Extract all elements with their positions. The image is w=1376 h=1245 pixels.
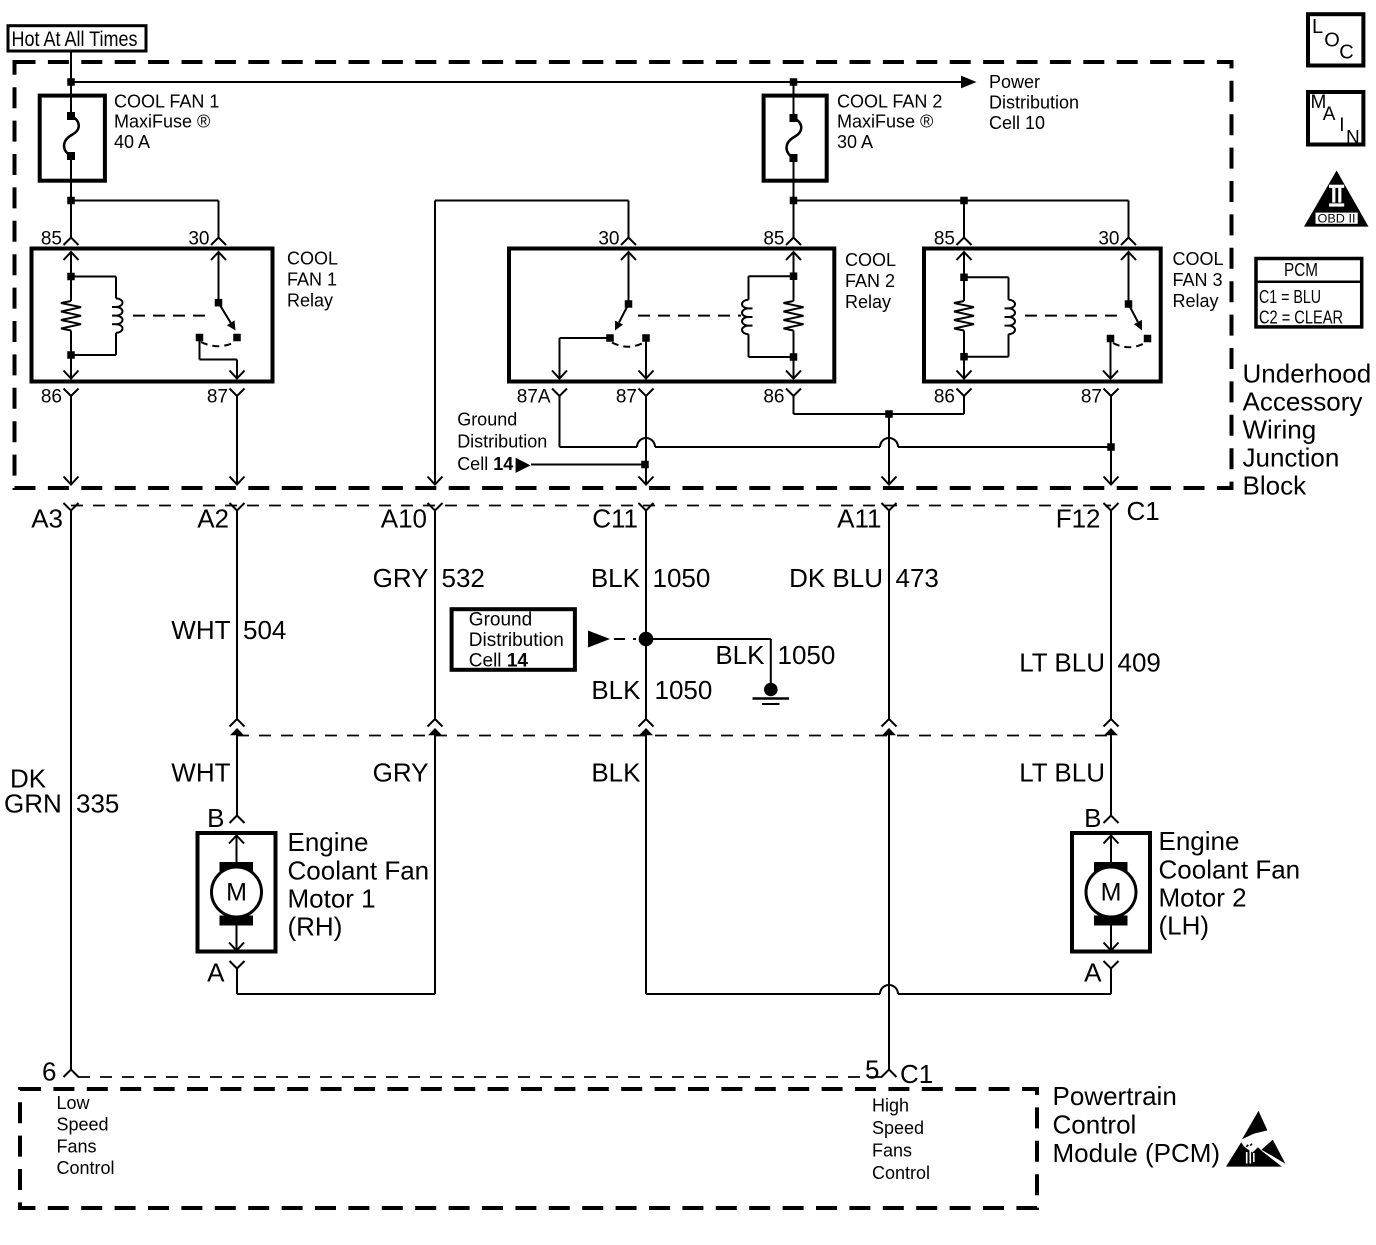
node: coil bottom junction K3 <box>960 353 968 361</box>
wire C11 BLK upper segment <box>645 511 647 720</box>
label Engine Coolant Fan Motor 2 (LH) <box>1159 826 1301 941</box>
wire branch to relay1 pin 30 <box>71 200 219 202</box>
wire top bus down to fuse 2 <box>793 82 795 96</box>
PCM pin 5 connector <box>882 1070 897 1078</box>
motor M1 terminal B connector <box>230 816 245 824</box>
relay K3 pin 85 internal lead <box>963 252 965 277</box>
wire to relay3 pin 85 <box>963 201 965 238</box>
wire motor2 A down to BLK bus <box>1110 969 1112 995</box>
wire A3 DK GRN down to PCM pin 6 <box>70 511 72 1070</box>
wire relay3 pin 87 to F12 exit <box>1110 396 1112 485</box>
svg-text:(LH): (LH) <box>1159 911 1210 941</box>
svg-text:86: 86 <box>41 387 62 408</box>
relay K1 pin 87 connector <box>230 389 245 397</box>
motor M1 Engine Coolant Fan Motor 1 box <box>198 833 276 952</box>
wire BLK down to ground bus <box>645 736 647 995</box>
svg-text:N: N <box>1346 127 1360 148</box>
svg-text:Relay: Relay <box>845 292 891 312</box>
svg-text:I: I <box>1339 115 1344 136</box>
svg-text:DK BLU: DK BLU <box>789 563 883 593</box>
node: switch pivot K3 <box>1125 300 1133 308</box>
label High Speed Fans Control <box>872 1096 930 1183</box>
svg-text:OBD II: OBD II <box>1318 213 1356 225</box>
svg-text:504: 504 <box>243 615 286 645</box>
node: coil top junction K1 <box>67 273 75 281</box>
svg-text:COOL FAN 1: COOL FAN 1 <box>114 91 219 111</box>
svg-text:F12: F12 <box>1056 504 1101 534</box>
relay K2 armature dashed link <box>638 315 741 317</box>
svg-text:COOL: COOL <box>1173 249 1224 269</box>
svg-text:87: 87 <box>1081 387 1102 408</box>
label Underhood Accessory Wiring Junction Block <box>1243 358 1372 500</box>
resistor inside K3 <box>963 277 965 301</box>
wire A10 column inside junction block <box>434 201 436 485</box>
svg-text:Cell 10: Cell 10 <box>989 113 1045 133</box>
svg-text:M: M <box>1101 879 1122 907</box>
node: tap junction for COOL FAN 2 fuse <box>790 78 798 86</box>
svg-text:COOL: COOL <box>845 250 896 270</box>
svg-text:86: 86 <box>763 387 784 408</box>
node: K3 contact 87 <box>1107 335 1115 343</box>
svg-text:Accessory: Accessory <box>1243 386 1363 416</box>
coil inside K1 <box>71 276 116 278</box>
relay K2 pin 85 internal lead <box>793 252 795 276</box>
node: K1 contact 87 <box>233 334 241 342</box>
relay K2 pin 86 connector <box>786 389 801 397</box>
wire bus BLK to motor2 A with hop over DK BLU <box>646 993 880 995</box>
node: coil bottom junction K1 <box>67 351 75 359</box>
arrow from Cell 14 box to BLK wire <box>588 631 610 648</box>
node: K2 contact 87 <box>642 334 650 342</box>
label COOL FAN 2 Relay <box>845 250 896 312</box>
svg-text:Block: Block <box>1243 470 1308 500</box>
motor M1 brush caps <box>220 862 254 872</box>
K1 normally-closed dashed arc <box>201 342 235 346</box>
svg-text:Coolant Fan: Coolant Fan <box>1159 855 1301 885</box>
label COOL FAN 2 MaxiFuse 30 A <box>837 91 942 152</box>
relay K3 pin 30 internal lead <box>1128 252 1130 304</box>
connector A11 <box>882 503 897 511</box>
node: switch pivot K1 <box>215 299 223 307</box>
svg-text:Junction: Junction <box>1243 442 1340 472</box>
Ground Distribution Cell 14 box <box>452 609 575 670</box>
label COOL FAN 1 Relay <box>287 249 338 311</box>
motor M1 bottom lead arrow <box>236 926 238 951</box>
svg-text:Low: Low <box>57 1093 91 1113</box>
wire from Hot At All Times down to fuse 1 <box>70 51 72 96</box>
relay K2 pin 87A internal lead <box>560 337 611 339</box>
svg-text:Cell 14: Cell 14 <box>469 651 529 672</box>
relay K1 pin 85 internal lead <box>70 252 72 277</box>
PCM connector legend box <box>1256 259 1362 328</box>
svg-text:Control: Control <box>872 1163 930 1183</box>
relay K1 pin 87 internal lead <box>199 341 201 360</box>
svg-text:85: 85 <box>41 229 62 250</box>
svg-text:Engine: Engine <box>288 827 369 857</box>
svg-text:C1: C1 <box>1127 496 1160 526</box>
wire A2 WHT upper segment <box>236 511 238 720</box>
relay K2 COOL FAN 2 Relay box <box>509 249 834 382</box>
svg-text:Module (PCM): Module (PCM) <box>1053 1138 1221 1168</box>
svg-text:Control: Control <box>57 1158 115 1178</box>
node: coil top junction K2 <box>790 272 798 280</box>
label Power Distribution Cell 10 <box>989 72 1079 133</box>
svg-text:1050: 1050 <box>653 563 711 593</box>
wire LT BLU to motor2 B <box>1110 736 1112 816</box>
relay K1 pin 85 connector <box>64 238 79 246</box>
svg-text:MaxiFuse ®: MaxiFuse ® <box>114 111 210 131</box>
node: coil bottom junction K2 <box>790 353 798 361</box>
svg-text:GRY: GRY <box>373 758 429 788</box>
wire from relay2 pin 30 up and left to A10 column <box>435 200 629 202</box>
relay K2 pin 87A connector <box>552 389 567 397</box>
K3 normally-closed dashed arc <box>1113 343 1145 347</box>
node: junction dot at top feed <box>67 78 75 86</box>
wire relay2 pin 87A across to relay3 pin 87 with hop over C11 <box>559 396 561 447</box>
Powertrain Control Module dashed box <box>20 1089 1037 1208</box>
svg-text:FAN 3: FAN 3 <box>1173 270 1223 290</box>
svg-text:1050: 1050 <box>655 675 713 705</box>
wire A11 DK BLU segment <box>888 511 890 720</box>
relay K3 pin 87 internal lead <box>1110 342 1112 379</box>
svg-text:BLK: BLK <box>715 640 765 670</box>
wire relay2 pin 86 bus to relay3 pin 86 <box>793 396 795 414</box>
svg-text:BLK: BLK <box>591 675 641 705</box>
inline connector on BLK wire <box>639 719 654 727</box>
arrow from Cell 14 reference to C11 wire <box>516 458 531 473</box>
svg-text:Motor 1: Motor 1 <box>288 884 376 914</box>
svg-text:335: 335 <box>76 789 119 819</box>
motor M2 terminal B connector <box>1104 816 1119 824</box>
connector F12 <box>1104 503 1119 511</box>
resistor inside K1 <box>70 277 72 302</box>
svg-text:Speed: Speed <box>57 1115 109 1135</box>
svg-text:A10: A10 <box>381 504 427 534</box>
relay K1 pin 86 connector <box>64 389 79 397</box>
wire fuse1 to relay1 pin 85 <box>70 181 72 238</box>
ground symbol G <box>753 683 790 704</box>
wire A10 GRY upper segment <box>434 511 436 720</box>
svg-text:87: 87 <box>207 387 228 408</box>
node: A11 tap junction <box>885 410 893 418</box>
relay K2 pin 87 connector <box>639 389 654 397</box>
thin dashed connector line mid row <box>237 735 1111 737</box>
wire relay2 pin 87 to C11 exit <box>645 396 647 485</box>
relay K3 pin 87 connector <box>1104 389 1119 397</box>
relay K1 switch blade <box>219 303 231 323</box>
svg-text:(RH): (RH) <box>288 912 343 942</box>
wire relay1 pin 87 to A2 exit <box>236 396 238 485</box>
node: K1 contact 87A <box>196 334 204 342</box>
svg-text:A11: A11 <box>837 504 881 534</box>
svg-text:A3: A3 <box>31 504 63 534</box>
arrow to Power Distribution Cell 10 <box>961 76 977 89</box>
svg-text:FAN 2: FAN 2 <box>845 271 895 291</box>
label Powertrain Control Module (PCM) <box>1053 1081 1221 1168</box>
relay K1 pin 30 internal lead <box>218 252 220 303</box>
svg-text:C2 = CLEAR: C2 = CLEAR <box>1259 308 1343 328</box>
connector A2 <box>230 503 245 511</box>
svg-text:30: 30 <box>1098 229 1119 250</box>
node: junction below fuse 2 <box>790 197 798 205</box>
svg-text:FAN 1: FAN 1 <box>287 270 337 290</box>
wire branch bus to relay3 <box>794 200 1129 202</box>
relay K1 pin 30 connector <box>211 238 226 246</box>
relay K2 pin 85 connector <box>786 238 801 246</box>
node: tap for relay3 pin 85 <box>960 197 968 205</box>
motor M1 terminal A connector <box>230 961 245 969</box>
svg-text:Wiring: Wiring <box>1243 414 1317 444</box>
svg-text:Distribution: Distribution <box>989 93 1079 113</box>
svg-text:85: 85 <box>934 229 955 250</box>
svg-text:Hot At All Times: Hot At All Times <box>12 28 138 51</box>
motor M2 armature circle <box>1086 867 1136 917</box>
svg-text:C1 = BLU: C1 = BLU <box>1259 287 1321 307</box>
thin dashed connector line top row <box>71 505 1111 507</box>
svg-text:C11: C11 <box>592 504 638 534</box>
svg-text:BLK: BLK <box>591 563 641 593</box>
svg-text:COOL FAN 2: COOL FAN 2 <box>837 91 942 111</box>
svg-text:Powertrain: Powertrain <box>1053 1081 1177 1111</box>
wire A11 exit <box>888 414 890 485</box>
K2 normally-closed dashed arc <box>612 343 644 347</box>
motor M2 top lead arrow <box>1110 836 1112 863</box>
svg-text:C1: C1 <box>900 1059 933 1089</box>
node: Cell 14 tap on C11 wire <box>641 461 649 469</box>
svg-text:6: 6 <box>42 1057 56 1087</box>
relay K3 pin 85 connector <box>957 238 972 246</box>
node: ground tap junction on C11 BLK wire <box>639 632 654 647</box>
coil inside K3 <box>964 276 1009 278</box>
svg-text:30 A: 30 A <box>837 132 873 152</box>
svg-text:87: 87 <box>616 387 637 408</box>
svg-text:Relay: Relay <box>287 291 333 311</box>
svg-text:A: A <box>1323 104 1336 125</box>
svg-text:GRN: GRN <box>4 789 62 819</box>
svg-text:5: 5 <box>865 1055 879 1085</box>
relay K3 COOL FAN 3 Relay box <box>924 249 1161 382</box>
svg-text:Coolant Fan: Coolant Fan <box>288 856 430 886</box>
node: K2 contact 87A <box>606 334 614 342</box>
connector A10 <box>428 503 443 511</box>
svg-text:30: 30 <box>188 229 209 250</box>
svg-text:O: O <box>1324 29 1340 51</box>
relay K3 pin 86 connector <box>957 389 972 397</box>
inline connector on GRY wire <box>428 719 443 727</box>
motor M1 armature circle <box>212 867 262 917</box>
svg-text:Fans: Fans <box>872 1140 912 1160</box>
wire ground stub <box>646 638 771 640</box>
coil inside K2 <box>749 275 794 277</box>
svg-text:PCM: PCM <box>1284 260 1318 280</box>
svg-text:Control: Control <box>1053 1110 1137 1140</box>
svg-text:40 A: 40 A <box>114 132 150 152</box>
relay K2 pin 86 internal lead <box>793 357 795 379</box>
svg-text:Relay: Relay <box>1173 291 1219 311</box>
svg-text:Power: Power <box>989 72 1040 92</box>
svg-text:A2: A2 <box>197 504 229 534</box>
svg-text:Speed: Speed <box>872 1118 924 1138</box>
wire A10 exit arrow <box>428 477 443 485</box>
connector C11 <box>639 503 654 511</box>
svg-text:Ground: Ground <box>457 410 517 430</box>
svg-text:GRY: GRY <box>373 563 429 593</box>
svg-text:Fans: Fans <box>57 1136 97 1156</box>
svg-text:473: 473 <box>896 563 939 593</box>
relay K1 pin 86 internal lead <box>70 355 72 379</box>
node: junction on relay3 pin87 wire <box>1107 443 1115 451</box>
wire to relay3 pin 30 <box>1128 201 1130 238</box>
svg-text:WHT: WHT <box>171 615 230 645</box>
fuse F1 element <box>64 96 79 181</box>
svg-text:86: 86 <box>934 387 955 408</box>
svg-text:A: A <box>1084 958 1102 988</box>
wire DK BLU down to PCM pin 5 <box>888 736 890 1070</box>
ESD sensitivity symbol <box>1226 1111 1285 1167</box>
svg-text:Motor 2: Motor 2 <box>1159 883 1247 913</box>
svg-text:85: 85 <box>763 229 784 250</box>
svg-text:LT BLU: LT BLU <box>1019 648 1105 678</box>
svg-text:Distribution: Distribution <box>457 432 547 452</box>
svg-text:532: 532 <box>442 563 485 593</box>
connector A3 <box>64 503 79 511</box>
wire bus motor1 A to GRY column <box>237 993 435 995</box>
node: junction below fuse 1 <box>67 197 75 205</box>
relay K2 pin 30 connector <box>621 238 636 246</box>
label Engine Coolant Fan Motor 1 (RH) <box>288 827 430 942</box>
svg-text:B: B <box>207 803 224 833</box>
label Low Speed Fans Control <box>57 1093 115 1178</box>
wire motor1 A down to GRY bus <box>236 969 238 995</box>
relay K3 switch blade <box>1129 304 1138 322</box>
fuse F2 COOL FAN 2 MaxiFuse 30A box <box>764 96 827 181</box>
svg-text:Distribution: Distribution <box>469 630 564 651</box>
svg-text:LT BLU: LT BLU <box>1019 758 1105 788</box>
svg-text:M: M <box>226 879 247 907</box>
wire relay1 pin 86 to A3 exit <box>70 396 72 485</box>
relay K2 pin 30 internal lead <box>628 252 630 304</box>
Underhood Accessory Wiring Junction Block dashed border <box>15 62 1232 488</box>
svg-text:1050: 1050 <box>778 640 836 670</box>
label COOL FAN 1 MaxiFuse 40 A <box>114 91 219 152</box>
thin dashed connector line at PCM <box>78 1076 882 1078</box>
svg-text:WHT: WHT <box>171 758 230 788</box>
wire: main feed bus to Power Distribution <box>71 81 962 83</box>
resistor inside K2 <box>793 276 795 301</box>
svg-text:Ground: Ground <box>469 610 532 631</box>
svg-text:COOL: COOL <box>287 249 338 269</box>
node: coil top junction K3 <box>960 274 968 282</box>
MAIN reference box <box>1308 92 1363 149</box>
fuse F1 COOL FAN 1 MaxiFuse 40A box <box>40 96 105 181</box>
relay K2 pin 87 internal lead <box>645 341 647 379</box>
svg-text:Engine: Engine <box>1159 826 1240 856</box>
wire GRY down to motor1 A bus <box>434 736 436 995</box>
svg-text:Cell 14: Cell 14 <box>457 454 513 474</box>
svg-text:A: A <box>207 958 225 988</box>
wire WHT to motor1 B <box>236 736 238 816</box>
relay K3 armature dashed link <box>1025 315 1122 317</box>
svg-text:B: B <box>1084 803 1101 833</box>
wire F12 LT BLU upper segment <box>1110 511 1112 720</box>
svg-text:MaxiFuse ®: MaxiFuse ® <box>837 111 933 131</box>
node: switch pivot K2 <box>625 300 633 308</box>
motor M2 Engine Coolant Fan Motor 2 box <box>1072 833 1150 952</box>
svg-text:Underhood: Underhood <box>1243 358 1372 388</box>
motor M1 top lead arrow <box>236 836 238 863</box>
svg-text:30: 30 <box>598 229 619 250</box>
motor M2 bottom lead arrow <box>1110 926 1112 951</box>
inline connector on LT BLU wire <box>1104 719 1119 727</box>
inline connector on WHT wire <box>230 719 245 727</box>
PCM pin 6 connector <box>64 1070 79 1078</box>
label COOL FAN 3 Relay <box>1173 249 1224 311</box>
motor M2 brush caps <box>1094 862 1128 872</box>
svg-text:409: 409 <box>1118 648 1161 678</box>
svg-text:L: L <box>1312 16 1323 38</box>
relay K1 armature dashed link <box>133 315 213 317</box>
Ground Distribution Cell 14 upper reference label <box>457 410 547 474</box>
relay K3 pin 30 connector <box>1121 238 1136 246</box>
relay K3 pin 86 internal lead <box>963 357 965 379</box>
relay K2 switch blade <box>619 304 629 323</box>
inline connector on DK BLU wire <box>882 719 897 727</box>
svg-text:High: High <box>872 1096 909 1116</box>
Hot At All Times label box <box>8 26 146 51</box>
label DK GRN 335 <box>4 764 119 819</box>
svg-text:BLK: BLK <box>591 758 641 788</box>
node: K3 contact NC <box>1144 335 1152 343</box>
wire fuse2 to relay2 pin 85 <box>793 181 795 238</box>
svg-text:87A: 87A <box>517 387 551 408</box>
LOC reference box <box>1308 14 1363 65</box>
relay K1 COOL FAN 1 Relay box <box>32 249 273 382</box>
motor M2 terminal A connector <box>1104 961 1119 969</box>
OBD II emblem <box>1304 171 1369 227</box>
svg-text:C: C <box>1339 42 1353 64</box>
fuse F2 element <box>787 96 802 181</box>
